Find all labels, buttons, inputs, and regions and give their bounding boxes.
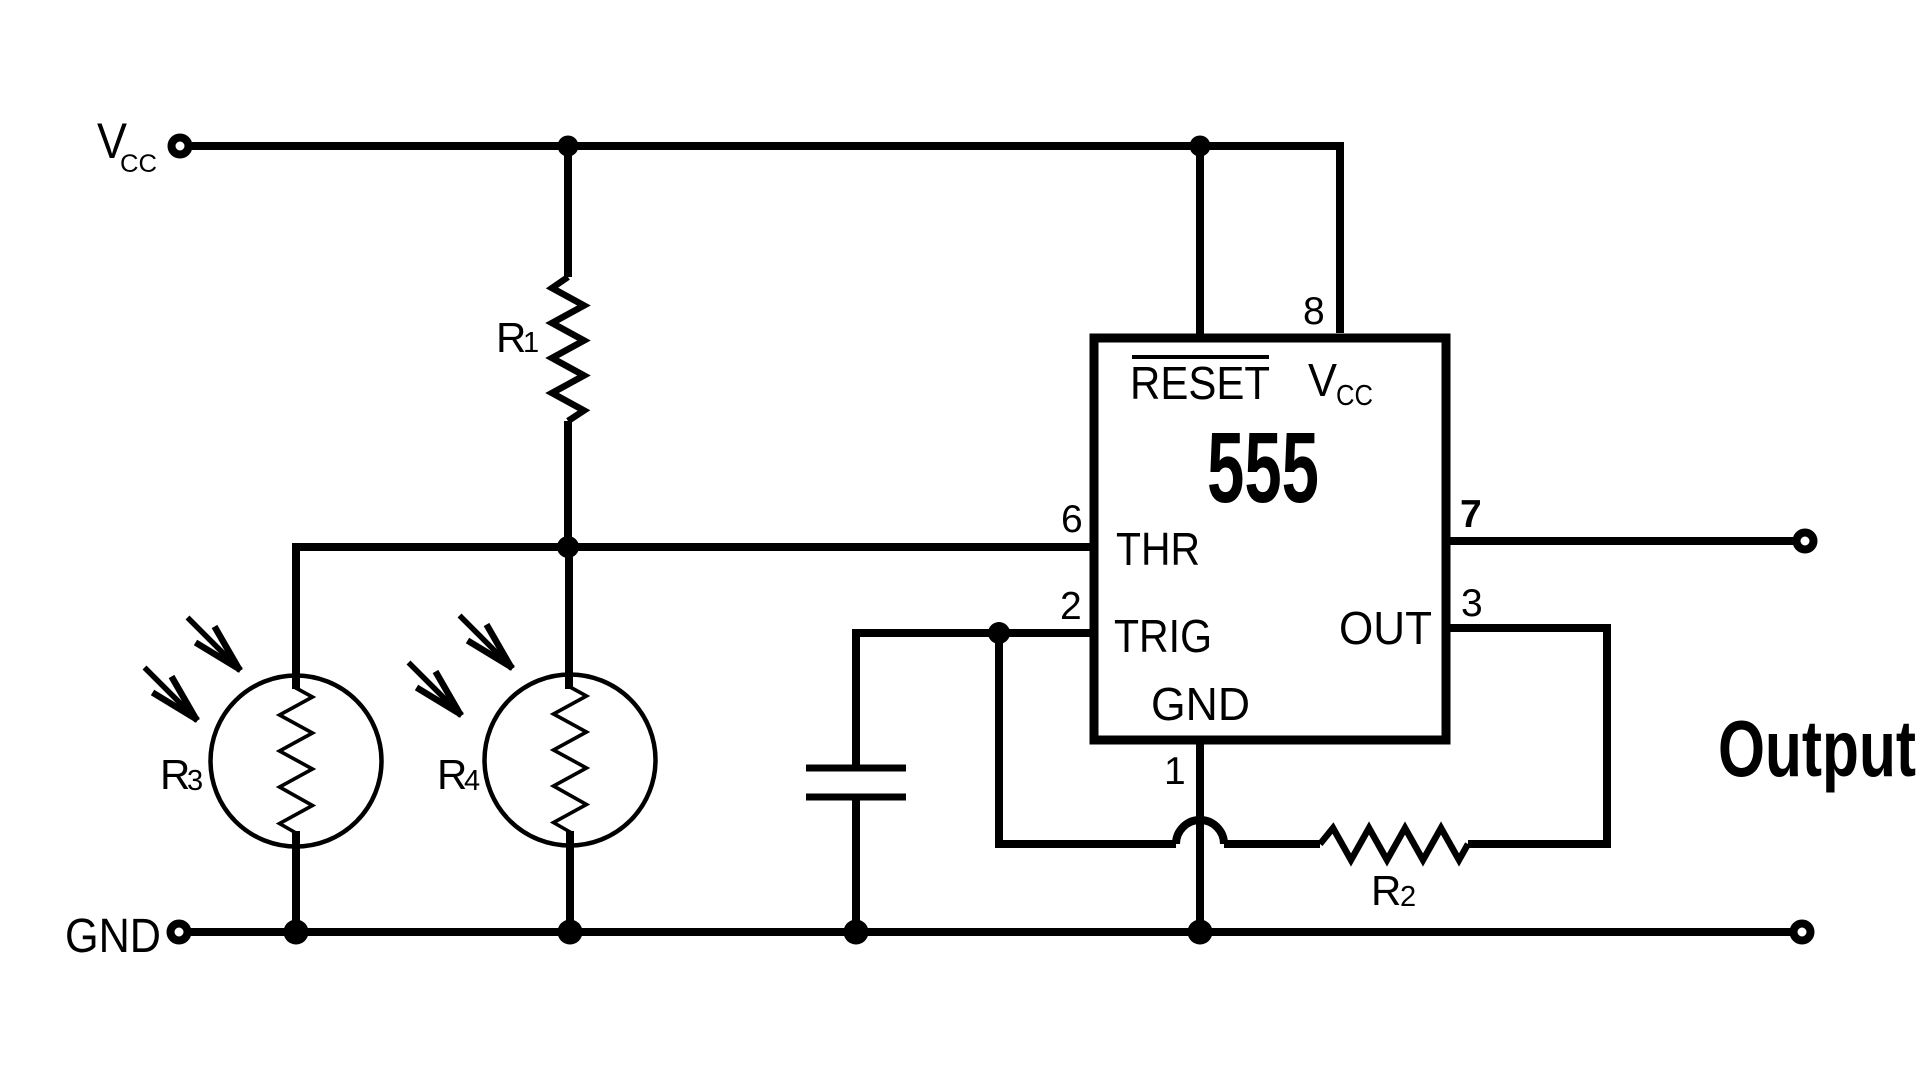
node junction THR/R1/R4 — [557, 536, 579, 558]
resistor R1 — [552, 277, 584, 421]
node junction top RESET — [1190, 136, 1211, 157]
svg-text:3: 3 — [187, 765, 203, 797]
arrow R4 lower — [409, 663, 462, 716]
label VCC pin8 inside — [1308, 354, 1373, 412]
wire feedback TRIG to hop — [999, 633, 1176, 844]
wire capacitor bottom lead — [852, 797, 860, 932]
photoresistor R3 zigzag — [280, 676, 313, 846]
node junction R3/GND — [284, 920, 309, 945]
svg-text:R: R — [1371, 867, 1401, 914]
node output terminal — [1797, 533, 1814, 550]
svg-text:V: V — [1308, 354, 1337, 406]
svg-text:R: R — [160, 751, 190, 798]
svg-text:Output: Output — [1718, 704, 1916, 793]
resistor R2 — [1320, 828, 1468, 860]
wire R2 to OUT — [1446, 628, 1607, 844]
svg-text:GND: GND — [1151, 678, 1250, 730]
IC U1 555 timer box — [1094, 338, 1446, 740]
wire R4 top lead — [565, 547, 573, 689]
node GND terminal right — [1794, 924, 1811, 941]
label R1 — [496, 314, 539, 361]
svg-text:OUT: OUT — [1339, 602, 1432, 654]
wire RESET pin drop — [1196, 146, 1204, 337]
node junction top R1 — [558, 136, 579, 157]
wire GND rail — [191, 928, 1802, 936]
svg-text:CC: CC — [120, 150, 157, 178]
svg-text:555: 555 — [1207, 412, 1319, 524]
label R2 — [1371, 867, 1416, 914]
wire hop over pin1 — [1176, 820, 1224, 844]
photoresistor R4 circle — [485, 675, 656, 846]
wire pin7 to output terminal — [1446, 537, 1793, 545]
wire R1 bottom lead — [564, 421, 572, 547]
label RESET overline — [1132, 355, 1269, 359]
label VCC (left) — [97, 113, 157, 178]
arrow R3 upper — [188, 618, 241, 671]
svg-text:TRIG: TRIG — [1114, 610, 1212, 662]
capacitor C1 top plate — [806, 765, 906, 772]
wire VCC top rail — [192, 146, 1340, 333]
svg-text:8: 8 — [1303, 290, 1325, 333]
svg-text:1: 1 — [1164, 750, 1186, 793]
wire R4 bottom lead — [566, 831, 574, 932]
node junction R4/GND — [558, 920, 583, 945]
svg-text:2: 2 — [1060, 585, 1082, 628]
node GND terminal — [171, 924, 188, 941]
svg-text:1: 1 — [523, 327, 539, 359]
svg-text:GND: GND — [65, 910, 161, 963]
arrow R3 lower — [145, 668, 198, 721]
svg-text:6: 6 — [1061, 498, 1083, 541]
svg-text:7: 7 — [1460, 493, 1482, 536]
svg-text:RESET: RESET — [1130, 357, 1270, 409]
svg-text:CC: CC — [1336, 380, 1373, 412]
wire R1 top lead — [564, 146, 572, 277]
wire hop to R2 — [1224, 840, 1320, 848]
wire capacitor top lead — [852, 629, 860, 765]
node junction TRIG feedback — [988, 622, 1010, 644]
svg-text:2: 2 — [1400, 881, 1416, 913]
capacitor C1 bottom plate — [806, 794, 906, 801]
node VCC terminal — [172, 138, 189, 155]
svg-text:3: 3 — [1461, 582, 1483, 625]
label R3 — [160, 751, 203, 798]
photoresistor R4 zigzag — [554, 675, 587, 845]
svg-text:R: R — [437, 751, 467, 798]
node junction C1/GND — [844, 920, 869, 945]
svg-text:R: R — [496, 314, 526, 361]
wire R3 bottom lead — [292, 831, 300, 932]
label R4 — [437, 751, 480, 798]
arrow R4 upper — [460, 616, 513, 669]
node junction pin1/GND — [1188, 920, 1213, 945]
svg-text:THR: THR — [1116, 523, 1200, 575]
wire pin1 GND lead — [1196, 740, 1204, 932]
wire THR net — [296, 547, 1094, 689]
svg-text:4: 4 — [464, 765, 480, 797]
wire TRIG net — [856, 629, 1094, 637]
photoresistor R3 circle — [211, 676, 382, 847]
